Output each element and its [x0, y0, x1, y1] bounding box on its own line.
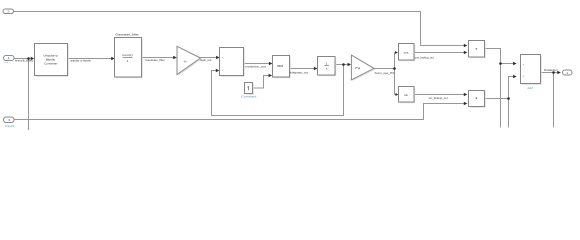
- svg-text:cos: cos: [404, 51, 409, 55]
- svg-text:modulus_out: modulus_out: [245, 65, 266, 69]
- svg-text:num(z): num(z): [122, 53, 132, 57]
- svg-text:Gaussian_filter: Gaussian_filter: [145, 58, 165, 62]
- svg-text:cos_lookup_out: cos_lookup_out: [415, 55, 434, 59]
- svg-text:bernoulli_binary: bernoulli_binary: [15, 58, 34, 62]
- svg-text:2*pi: 2*pi: [355, 66, 361, 70]
- svg-text:sin_lookup_out: sin_lookup_out: [429, 96, 448, 100]
- svg-text:Gaussian_filter: Gaussian_filter: [115, 32, 138, 36]
- svg-text:Sum_out_PS: Sum_out_PS: [375, 71, 395, 75]
- svg-text:Add: Add: [527, 86, 533, 90]
- svg-text:Integrator_out: Integrator_out: [290, 70, 309, 74]
- svg-text:unipolar to bipolar: unipolar to bipolar: [70, 59, 91, 63]
- svg-text:Gain_out: Gain_out: [200, 58, 212, 62]
- svg-text:Constant: Constant: [241, 95, 257, 99]
- svg-text:sin: sin: [404, 93, 408, 97]
- svg-text:Input3: Input3: [5, 124, 15, 128]
- svg-text:-K-: -K-: [184, 59, 188, 63]
- svg-text:mod: mod: [277, 64, 283, 68]
- svg-text:Converter: Converter: [44, 61, 57, 65]
- svg-text:Modulated(out): Modulated(out): [544, 68, 558, 72]
